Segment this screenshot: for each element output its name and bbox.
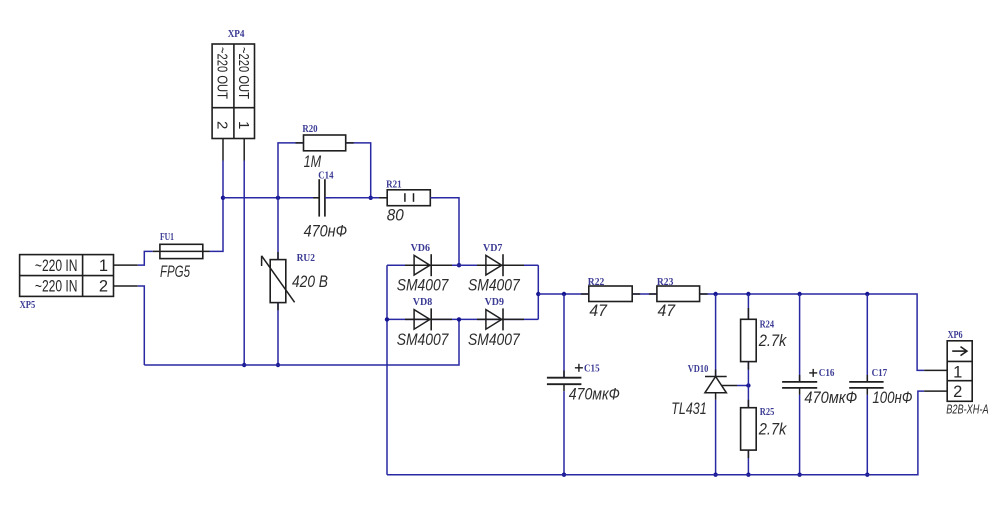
wire C16 bottom [799,395,801,475]
svg-text:47: 47 [589,301,607,320]
svg-text:SM4007: SM4007 [397,330,449,349]
wire live horizontal to C14 [223,197,319,199]
node R24 top junction [746,292,750,296]
svg-text:B2B-XH-A: B2B-XH-A [946,401,988,416]
node bridge plus junction [536,292,540,296]
svg-text:XP5: XP5 [20,300,36,311]
node divider junction [746,383,750,387]
node C15 top junction [562,292,566,296]
node bridge minus junction [385,317,389,321]
svg-text:C16: C16 [819,368,835,379]
node R25 bottom junction [746,473,750,477]
diode VD9 [468,297,524,349]
resistor R25 [741,407,788,450]
node C17 top junction [865,292,869,296]
svg-text:FU1: FU1 [160,232,174,243]
resistor R23 [649,277,708,320]
node C16 top junction [797,292,801,296]
wire C15 bottom [563,391,565,475]
wire ground bus [387,391,924,475]
svg-text:TL431: TL431 [671,399,706,418]
capacitor C17 [849,294,912,407]
capacitor C16 [782,294,857,407]
svg-text:1: 1 [99,257,108,275]
wire RU2 bottom lead [277,303,279,365]
varistor RU2 [262,253,328,302]
svg-text:47: 47 [658,301,676,320]
node RU2/neutral junction [276,363,280,367]
svg-text:R24: R24 [760,320,775,331]
XP5 pin 2 stub [114,285,138,287]
svg-text:FPG5: FPG5 [160,262,190,281]
XP6 pin 1 stub [924,369,947,371]
wire R22-R23 link [632,293,657,295]
XP6 pin 2 stub [924,390,947,392]
XP4 pin 1 stub [243,139,245,161]
svg-text:80: 80 [387,206,404,225]
wire C14 right to R21 [325,197,387,199]
node AC2 junction [457,317,461,321]
wire C17 bottom [866,395,868,475]
wire RU2 top lead [277,198,279,260]
svg-text:470мкФ: 470мкФ [569,385,620,404]
svg-text:VD9: VD9 [485,297,504,308]
svg-text:RU2: RU2 [297,253,315,264]
resistor R22 [581,277,640,320]
svg-text:420 В: 420 В [292,272,328,291]
wire XP4 pin 1 down to neutral [243,161,245,366]
svg-text:2: 2 [953,383,962,401]
svg-text:1: 1 [235,121,252,129]
capacitor C15 [547,294,620,404]
wire R23 to XP6 [700,294,925,370]
diode VD6 [397,243,452,295]
svg-text:1M: 1M [304,152,322,171]
svg-text:SM4007: SM4007 [397,276,449,295]
wire XP5.1 to FU1 [138,251,153,265]
svg-text:VD6: VD6 [411,243,430,254]
node B junction (R20/RU2 tap) [276,196,280,200]
resistor R24 [741,294,788,362]
node VD10 bottom junction [713,473,717,477]
node VD10 top junction [713,292,717,296]
svg-text:VD7: VD7 [483,243,502,254]
node AC1 junction [457,263,461,267]
wire positive rail [538,293,589,295]
node A junction [221,196,225,200]
fuse FU1 [153,232,210,281]
svg-text:XP4: XP4 [228,29,245,40]
node C15 bottom junction [562,473,566,477]
connector XP6 [946,330,988,417]
wire VD10 anode to bus [715,400,717,475]
R21 lead stubs [379,197,387,199]
svg-text:2: 2 [99,278,108,296]
wire FU1 to node A [210,198,224,252]
node XP4.1/neutral junction [242,363,246,367]
wire bridge bottom row [387,318,538,320]
wire bridge top row [387,264,538,266]
connector XP5 [20,255,114,311]
wire bridge right vertical (plus) [537,265,539,319]
svg-text:XP6: XP6 [948,330,963,341]
node C16 bottom junction [797,473,801,477]
wire VD10 ref to divider [737,385,748,387]
wire neutral bottom [144,319,459,365]
wire R25 bottom to bus [747,450,749,475]
svg-text:~220 OUT: ~220 OUT [235,47,252,99]
capacitor C14 [304,171,348,241]
connector XP4 [212,29,254,139]
node C17 bottom junction [865,473,869,477]
resistor R20 [302,124,345,171]
wire R21 to bridge AC1 [430,198,459,265]
svg-text:470мкФ: 470мкФ [804,388,857,407]
svg-text:SM4007: SM4007 [468,330,520,349]
svg-text:R20: R20 [302,124,317,135]
svg-text:VD10: VD10 [688,364,709,375]
svg-text:~220 IN: ~220 IN [35,278,78,296]
shunt regulator VD10 TL431 [671,294,737,418]
diode VD7 [468,243,524,295]
svg-text:2: 2 [214,121,231,129]
wire node A up to XP4 pin 2 [222,161,224,198]
wire R24 bottom to divider node [747,362,749,408]
wire R20 left lead [278,143,304,198]
svg-text:C14: C14 [318,171,334,182]
svg-text:C15: C15 [584,364,600,375]
svg-text:C17: C17 [872,368,888,379]
svg-text:~220 OUT: ~220 OUT [214,47,231,99]
svg-text:VD8: VD8 [413,297,432,308]
diode VD8 [397,297,452,349]
svg-text:R21: R21 [386,180,402,191]
wire R20 right lead [346,143,371,198]
svg-text:1: 1 [953,364,962,382]
svg-text:~220 IN: ~220 IN [35,257,78,275]
svg-text:470нФ: 470нФ [304,222,348,241]
svg-text:2.7k: 2.7k [758,420,788,439]
XP5 pin 1 stub [114,264,138,266]
svg-text:R25: R25 [760,407,775,418]
svg-text:SM4007: SM4007 [468,276,520,295]
svg-text:100нФ: 100нФ [872,388,912,407]
svg-text:2.7k: 2.7k [758,331,788,350]
resistor R21 [386,180,430,225]
wire XP5.2 to neutral [138,286,145,365]
XP4 pin 2 stub [222,139,224,161]
wire bridge left vertical (minus) [386,265,388,475]
node C junction (R20 right / C14 right) [369,196,373,200]
